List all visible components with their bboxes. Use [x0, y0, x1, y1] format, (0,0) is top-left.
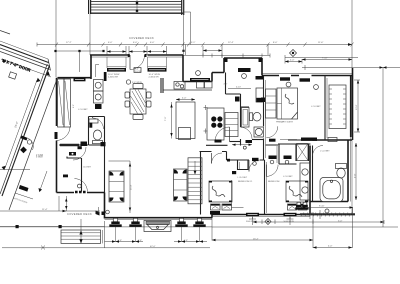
wall south right-room — [313, 139, 353, 141]
svg-text:4'-0": 4'-0" — [290, 60, 295, 62]
wall jog kitchen — [183, 55, 212, 82]
wall south foyer — [57, 192, 105, 194]
master wardrobe — [266, 89, 277, 118]
svg-text:4'-0": 4'-0" — [224, 84, 228, 86]
svg-text:L CLOSET: L CLOSET — [311, 106, 321, 108]
corner marker powder — [101, 142, 106, 146]
garage inner wall — [9, 79, 57, 210]
dim second row — [107, 51, 167, 53]
window kitchen east — [261, 98, 265, 103]
svg-text:4'-0": 4'-0" — [328, 246, 333, 248]
closet1 vent — [232, 171, 236, 174]
dim vertical left — [55, 0, 57, 77]
deck extension lines — [184, 12, 191, 45]
hall-bath toilet — [250, 113, 253, 121]
kitchen sink — [197, 81, 205, 88]
svg-text:BEDROOM #1: BEDROOM #1 — [238, 181, 253, 183]
closet1 box — [238, 160, 249, 170]
dim right 13-6 — [357, 80, 359, 132]
door bedroom2 — [265, 165, 267, 177]
dim porch left — [0, 210, 100, 212]
bed2 pillows — [288, 204, 297, 210]
deck boards — [90, 2, 182, 10]
wall kitchen stub west — [161, 78, 163, 93]
wall west jog — [90, 55, 92, 79]
svg-text:3'-0" WDW: 3'-0" WDW — [132, 82, 142, 84]
dim right vertical 383 — [382, 68, 384, 228]
deck left edge — [89, 14, 91, 55]
svg-text:12'-4": 12'-4" — [228, 42, 234, 44]
deck dim tick — [136, 0, 138, 14]
dim right 7-10 — [302, 59, 352, 61]
dining table — [130, 89, 146, 114]
svg-text:11'-6": 11'-6" — [318, 42, 324, 44]
window master north A — [280, 77, 290, 80]
wall bedroom1 west — [200, 152, 202, 215]
svg-text:6'-8": 6'-8" — [184, 240, 188, 242]
hall bath cabinet — [256, 88, 264, 102]
svg-text:L CLOSET: L CLOSET — [238, 177, 248, 179]
dim bay arrows — [203, 50, 222, 52]
master tub — [320, 178, 343, 202]
SECTION: bottom deck — [0, 209, 355, 243]
dim range small — [204, 105, 208, 134]
svg-text:4'-10": 4'-10" — [236, 87, 241, 89]
svg-text:4'-0": 4'-0" — [182, 98, 187, 100]
hall-bath sink — [254, 127, 264, 137]
range burners — [211, 116, 216, 121]
SECTION: furniture — [58, 76, 347, 232]
door bedroom1 — [211, 153, 213, 164]
range counter — [207, 108, 224, 140]
wall hall-bath west — [241, 94, 250, 146]
svg-text:L CLOSET: L CLOSET — [78, 109, 88, 111]
fireplace — [144, 221, 171, 232]
garage long dim — [5, 80, 37, 168]
svg-text:L CLOSET: L CLOSET — [320, 150, 330, 152]
bed 1 — [209, 181, 232, 202]
bay window glazing — [238, 68, 251, 72]
dim bedroom1 — [232, 180, 244, 207]
dim kitchen row — [184, 55, 271, 57]
door hall arc — [229, 127, 231, 142]
wall bay window north — [212, 58, 262, 76]
wall south master suite — [206, 144, 311, 145]
svg-text:CLOSET: CLOSET — [83, 166, 92, 168]
svg-text:16'-2": 16'-2" — [253, 238, 259, 240]
svg-text:6'-8": 6'-8" — [138, 240, 142, 242]
wall east outer — [351, 68, 353, 140]
foyer top blob — [69, 152, 76, 156]
garage long wall — [2, 66, 50, 197]
svg-text:13'-6": 13'-6" — [356, 104, 358, 110]
right room threshold — [328, 138, 337, 142]
dim bath bottom right — [302, 207, 353, 209]
svg-text:6'-0": 6'-0" — [133, 42, 138, 44]
svg-text:7'-10": 7'-10" — [322, 58, 328, 60]
dim mud window — [56, 50, 104, 52]
stairs great room — [188, 158, 202, 204]
SECTION: interior walls — [59, 73, 346, 215]
wall east master-bath — [347, 140, 349, 202]
svg-text:5'-1": 5'-1" — [191, 42, 196, 44]
dishwasher — [235, 97, 240, 102]
window kitchen north — [190, 78, 210, 82]
dining window marker — [126, 80, 130, 84]
master vanity — [300, 163, 310, 200]
wall west main — [56, 78, 58, 193]
diamond marker south — [265, 219, 271, 225]
garage interior arrow — [39, 188, 43, 192]
door powder — [93, 118, 104, 129]
deck stairs bottom — [61, 230, 101, 243]
door master bath — [313, 146, 324, 157]
marker box mud — [81, 142, 88, 147]
svg-text:9'-10": 9'-10" — [319, 206, 325, 208]
dim island — [172, 100, 196, 139]
window symbol bed1 south — [246, 213, 259, 223]
dim main top line — [37, 44, 352, 46]
wall mud south — [59, 144, 88, 146]
door garage-side west — [57, 127, 71, 141]
wall kitchen east — [226, 73, 241, 95]
dim right outer top — [302, 67, 400, 69]
thresholds hall — [215, 140, 222, 143]
wall hall bed1 — [200, 152, 227, 161]
wall north master-bath hall — [288, 139, 313, 141]
svg-text:L CLOSET: L CLOSET — [283, 176, 293, 178]
dim kitchen small — [228, 88, 251, 90]
wall bedrooms divider — [264, 160, 266, 215]
dim bed windows drops — [253, 217, 291, 225]
dim 4-0 deck — [313, 247, 352, 249]
hall-bath shower — [242, 108, 250, 128]
garage side door — [21, 136, 28, 141]
bed1 pillows — [211, 204, 221, 210]
sofa east — [174, 169, 188, 201]
window master north B — [300, 78, 311, 81]
dining chairs — [125, 92, 130, 98]
door foyer closet — [73, 147, 86, 160]
door hall-bath — [241, 127, 253, 139]
sofa west — [109, 171, 124, 202]
door closet hall — [248, 160, 250, 172]
closet2 bifold windows — [269, 156, 277, 160]
bath south windows — [295, 202, 302, 209]
foyer shelf marker — [63, 175, 68, 178]
dim 42-0 bottom — [2, 247, 210, 249]
window north B — [148, 66, 167, 68]
SECTION: labels — [36, 36, 358, 248]
wall east bedroom2 — [309, 146, 311, 215]
dim garage left — [0, 169, 30, 171]
deck posts — [16, 225, 19, 228]
wall west porch-corner — [104, 193, 106, 219]
wall north mud — [58, 77, 92, 79]
dim right deck verticals — [313, 208, 353, 249]
svg-text:8'-0": 8'-0" — [273, 42, 278, 44]
wall right room west — [324, 76, 326, 141]
svg-text:15'-8": 15'-8" — [131, 184, 133, 190]
wall south great-room — [105, 217, 213, 219]
wall hall south — [227, 159, 265, 161]
bed 2 — [286, 181, 308, 202]
wall bath2 west — [312, 146, 314, 202]
svg-text:COVERED DECK: COVERED DECK — [129, 36, 154, 40]
laundry column — [94, 80, 104, 92]
window north A — [107, 66, 126, 68]
deck right edge — [182, 0, 184, 15]
door label — [134, 68, 141, 73]
SECTION: exterior walls — [57, 55, 353, 220]
foyer closet walls — [67, 157, 82, 192]
svg-text:6 SEAT: 6 SEAT — [36, 156, 44, 159]
garage check box — [9, 72, 17, 79]
dim bottom right rows — [253, 221, 384, 223]
garage low vent — [19, 185, 29, 192]
garage corner stub — [0, 31, 10, 35]
svg-text:3'-0": 3'-0" — [338, 220, 343, 222]
wall north master — [262, 75, 352, 77]
powder room walls — [89, 117, 105, 193]
kitchen counter north — [163, 89, 212, 91]
svg-text:9'-8": 9'-8" — [355, 173, 357, 178]
stair well right room — [329, 85, 346, 129]
svg-text:6'-0": 6'-0" — [150, 42, 155, 44]
dim top ticks — [55, 43, 354, 47]
garage door dim — [1, 59, 51, 77]
svg-text:6'-8": 6'-8" — [118, 240, 122, 242]
dim sofa great room — [109, 161, 131, 213]
svg-text:BEDROOM: BEDROOM — [268, 181, 279, 183]
svg-text:42'-0": 42'-0" — [150, 246, 156, 248]
deck hatched edge right — [300, 213, 355, 215]
svg-text:2-3050 SH: 2-3050 SH — [108, 76, 118, 78]
garage diamond — [20, 147, 27, 154]
window bath north — [301, 138, 317, 141]
wall master closet jog — [279, 144, 297, 164]
kitchen island — [176, 102, 195, 139]
door main north — [129, 55, 131, 70]
svg-text:7'-0": 7'-0" — [165, 116, 167, 121]
svg-text:PRIMARY SUITE: PRIMARY SUITE — [276, 121, 293, 124]
svg-text:17'-2": 17'-2" — [66, 42, 72, 44]
svg-text:11'-4": 11'-4" — [42, 209, 48, 211]
window bedroom1 south — [210, 211, 220, 215]
SECTION: doors windows — [55, 50, 324, 242]
dim porch vertical — [65, 196, 67, 211]
svg-text:4'-6": 4'-6" — [73, 104, 75, 108]
wall hall north — [230, 141, 241, 143]
dim window drops great room — [104, 221, 106, 248]
powder vanity — [89, 119, 98, 123]
deck stair arrow — [80, 219, 82, 243]
master toilet — [336, 164, 347, 169]
window mud north — [74, 78, 86, 81]
wall south bedrooms — [212, 214, 310, 216]
wall south master-bath — [310, 201, 348, 203]
dim right bath vertical — [355, 143, 357, 200]
diamond marker north — [290, 50, 297, 57]
deck edge left — [0, 226, 105, 228]
garage door wall band — [0, 41, 48, 59]
master bed — [277, 88, 298, 119]
SECTION: garage diagonals — [0, 31, 57, 211]
pantry shelves left — [58, 79, 65, 127]
window symbol bed2 south — [284, 213, 297, 223]
svg-text:COVERED DECK: COVERED DECK — [67, 212, 92, 216]
powder toilet — [93, 130, 101, 140]
door master suite — [266, 126, 278, 138]
bath window bar — [256, 76, 264, 80]
door entry south — [75, 191, 86, 193]
svg-text:2-3050 SH: 2-3050 SH — [149, 76, 159, 78]
wall north great-room — [90, 54, 183, 56]
fridge kitchen — [225, 113, 238, 137]
great room south window symbols — [109, 218, 121, 241]
porch stair marks — [96, 211, 106, 216]
kitchen cooktop — [174, 82, 185, 90]
svg-text:DOOR: DOOR — [135, 71, 142, 73]
dim master top — [285, 58, 358, 62]
wall jog great-bed — [211, 214, 213, 218]
linen closet X — [297, 144, 309, 161]
svg-text:6'-0": 6'-0" — [108, 42, 113, 44]
wall master closet west — [263, 76, 265, 161]
dim 16-2 — [212, 239, 313, 241]
window jamb post — [104, 72, 107, 81]
SECTION: top deck — [89, 0, 191, 55]
